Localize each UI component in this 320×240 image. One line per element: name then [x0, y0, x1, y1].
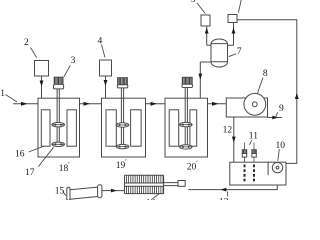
svg-text:10: 10: [276, 141, 286, 151]
svg-text:3: 3: [71, 56, 76, 66]
svg-text:12: 12: [223, 126, 233, 136]
svg-text:5: 5: [191, 0, 196, 5]
svg-text:11: 11: [249, 132, 258, 142]
svg-text:7: 7: [237, 47, 242, 57]
svg-text:2: 2: [24, 38, 29, 48]
svg-text:8: 8: [263, 69, 268, 79]
svg-text:15: 15: [55, 186, 65, 196]
svg-text:4: 4: [98, 36, 103, 46]
svg-text:16: 16: [15, 150, 25, 160]
svg-text:9: 9: [279, 104, 284, 114]
svg-text:1: 1: [0, 89, 5, 99]
svg-text:13: 13: [219, 198, 229, 201]
svg-text:14: 14: [146, 199, 156, 201]
svg-text:17: 17: [25, 168, 35, 178]
